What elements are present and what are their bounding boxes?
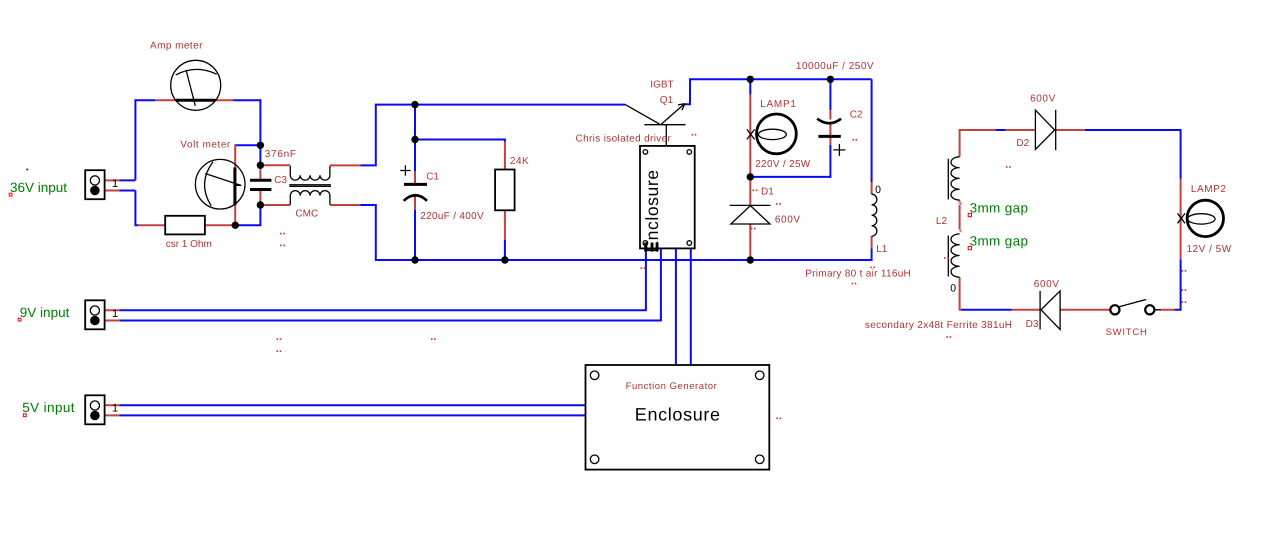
svg-text:L2: L2 [936,216,948,227]
svg-text:Amp meter: Amp meter [150,41,203,52]
svg-text:C2: C2 [850,109,863,120]
svg-text:secondary 2x48t Ferrite 381uH: secondary 2x48t Ferrite 381uH [865,320,1012,331]
svg-text:csr 1 Ohm: csr 1 Ohm [166,239,212,250]
svg-text:3mm gap: 3mm gap [970,200,1029,215]
svg-text:C3: C3 [274,175,287,186]
svg-text:5V input: 5V input [22,400,75,415]
svg-text:C1: C1 [426,172,439,183]
svg-text:600V: 600V [1030,93,1056,104]
svg-text:0: 0 [950,283,956,295]
svg-text:600V: 600V [1034,279,1060,290]
svg-text:9V input: 9V input [20,305,70,320]
svg-text:36V input: 36V input [10,180,67,195]
svg-text:Q1: Q1 [660,95,674,106]
svg-text:1: 1 [112,178,118,190]
svg-text:24K: 24K [510,156,529,167]
svg-text:Enclosure: Enclosure [635,404,721,424]
svg-text:D1: D1 [761,186,774,197]
svg-text:1: 1 [112,403,118,415]
svg-text:Primary 80 t air 116uH: Primary 80 t air 116uH [805,268,911,279]
svg-text:D3: D3 [1026,319,1039,330]
svg-text:1: 1 [112,308,118,320]
svg-text:Function Generator: Function Generator [626,381,718,392]
svg-text:SWITCH: SWITCH [1106,327,1148,338]
svg-text:0: 0 [875,184,881,196]
svg-text:376nF: 376nF [265,149,297,160]
svg-text:Volt meter: Volt meter [180,139,231,150]
svg-text:Enclosure: Enclosure [642,169,662,252]
svg-text:10000uF / 250V: 10000uF / 250V [796,61,874,72]
svg-text:D2: D2 [1016,138,1029,149]
svg-text:LAMP1: LAMP1 [760,99,796,110]
svg-text:Chris isolated driver: Chris isolated driver [576,133,672,144]
svg-text:CMC: CMC [295,208,318,219]
svg-text:220uF / 400V: 220uF / 400V [420,211,484,222]
svg-text:12V / 5W: 12V / 5W [1187,244,1232,255]
svg-text:L1: L1 [876,244,888,255]
svg-text:LAMP2: LAMP2 [1191,184,1227,195]
svg-text:220V / 25W: 220V / 25W [755,159,811,170]
svg-text:600V: 600V [775,214,801,225]
svg-text:IGBT: IGBT [650,80,673,91]
svg-text:3mm gap: 3mm gap [970,233,1029,248]
